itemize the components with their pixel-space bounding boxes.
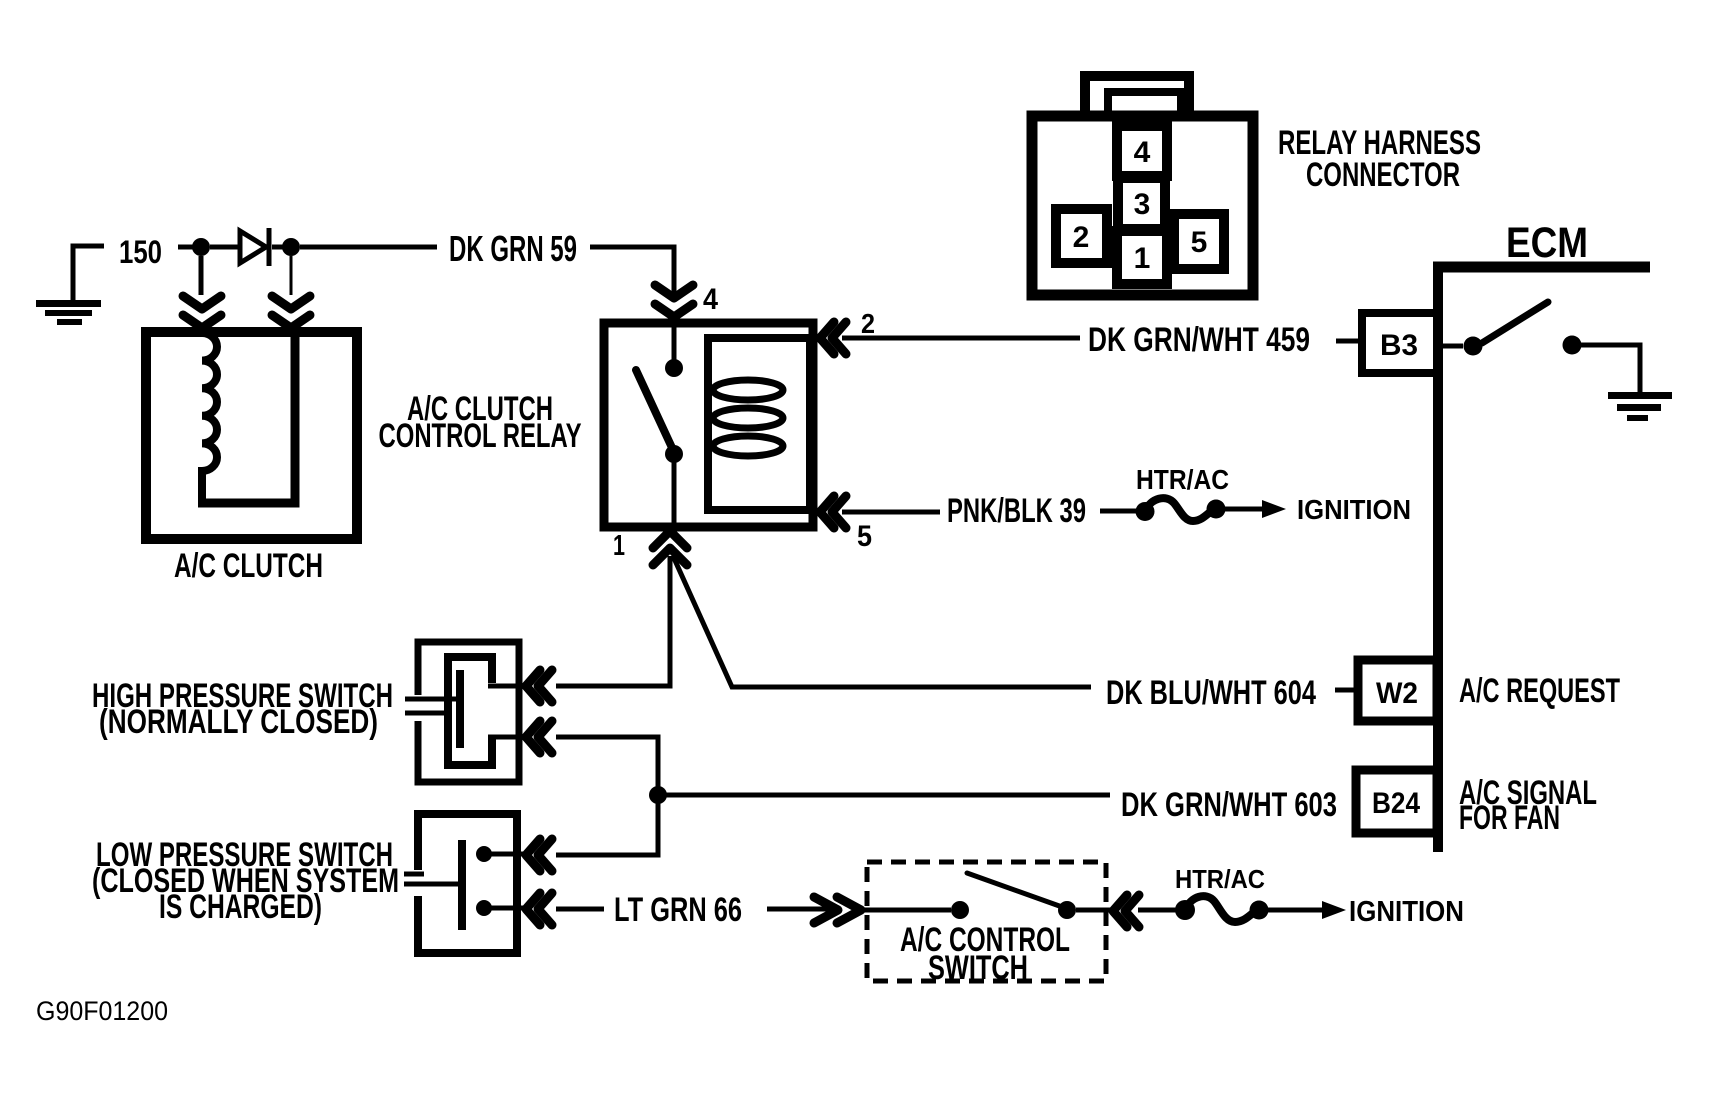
low pressure switch connector arrows (bottom) (526, 893, 552, 925)
svg-text:5: 5 (857, 520, 872, 553)
ECM boundary top line (1433, 262, 1650, 273)
wire stub to B3 (1336, 339, 1362, 344)
high pressure switch terminals (488, 686, 524, 737)
connector cavity 3 (1118, 178, 1165, 229)
low pressure switch bottom terminal (484, 906, 524, 911)
high pressure switch connector arrows (top) (526, 670, 552, 702)
high pressure switch diaphragm plates (405, 699, 458, 713)
node B (junction dot right of diode) (282, 238, 300, 256)
svg-text:DK GRN/WHT 459: DK GRN/WHT 459 (1088, 321, 1310, 359)
wire out of switch (1076, 908, 1110, 913)
ECM internal switch (1441, 302, 1640, 392)
svg-text:1: 1 (613, 530, 625, 562)
svg-text:HTR/AC: HTR/AC (1175, 864, 1265, 894)
wire node B to label DK GRN 59 (300, 245, 437, 250)
svg-text:CONNECTOR: CONNECTOR (1306, 156, 1460, 194)
wire node A to diode (210, 245, 240, 250)
svg-text:DK GRN/WHT 603: DK GRN/WHT 603 (1121, 786, 1337, 824)
relay pin 5 connector arrows (820, 496, 846, 528)
svg-text:G90F01200: G90F01200 (36, 996, 168, 1026)
wire stub to W2 (1335, 688, 1358, 693)
A/C control switch dashed box (867, 862, 1106, 981)
A/C clutch coil (inductor) (202, 333, 217, 503)
svg-text:(NORMALLY CLOSED): (NORMALLY CLOSED) (99, 703, 378, 741)
connector arrows into A/C clutch (left) (183, 296, 221, 328)
svg-text:IGNITION: IGNITION (1297, 494, 1411, 525)
A/C clutch box (146, 332, 357, 539)
ECM terminal W2 (1358, 660, 1437, 721)
svg-text:CONTROL RELAY: CONTROL RELAY (379, 417, 582, 455)
wire relay pin1 down to junction of high pressure switch (556, 556, 670, 686)
relay coil box (inner) (708, 338, 810, 510)
svg-text:DK GRN 59: DK GRN 59 (449, 228, 577, 269)
connector cavity 4 (1117, 126, 1167, 176)
svg-text:4: 4 (703, 283, 718, 316)
svg-text:FOR FAN: FOR FAN (1459, 799, 1560, 837)
svg-text:ECM: ECM (1506, 219, 1588, 267)
node A (junction dot left of diode) (192, 238, 210, 256)
connector cavity 5 (1174, 214, 1224, 269)
wire relay pin 5 to PNK/BLK 39 (842, 510, 940, 515)
svg-text:HTR/AC: HTR/AC (1136, 464, 1229, 495)
wire coil return (U inside clutch box) (198, 332, 295, 503)
node C (junction dot to B24 line) (649, 786, 667, 804)
A/C control switch left contact dot (951, 901, 969, 919)
wire to fuse (lower) (1138, 908, 1177, 913)
svg-text:W2: W2 (1376, 677, 1418, 710)
connector arrows into A/C clutch (right) (272, 296, 310, 328)
ECM terminal B24 (1356, 770, 1437, 833)
wire relay pin 2 to ECM B3 (842, 336, 1080, 341)
A/C control switch blade (967, 873, 1065, 908)
low pressure switch connector arrows (top) (526, 839, 552, 871)
high pressure switch connector arrows (bottom) (526, 721, 552, 753)
connector arrows out of A/C control switch (1113, 895, 1139, 927)
A/C control switch right contact dot (1058, 901, 1076, 919)
low pressure switch box (412, 814, 517, 953)
svg-text:150: 150 (119, 234, 162, 270)
svg-text:LT GRN 66: LT GRN 66 (614, 891, 742, 929)
relay pin 2 connector arrows (820, 322, 846, 354)
relay pin 4 connector arrows (655, 285, 693, 317)
low pressure switch top terminal (484, 852, 524, 857)
relay harness connector body (1032, 76, 1253, 295)
wire node C to label DK GRN/WHT 603 (665, 793, 1110, 798)
svg-text:2: 2 (1073, 221, 1090, 254)
svg-text:SWITCH: SWITCH (928, 949, 1028, 987)
connector cavity 1 (1117, 231, 1167, 284)
low pressure switch top contact dot (476, 846, 492, 862)
relay K1 outer box (604, 323, 813, 527)
wire node A down to A/C clutch connector (199, 256, 204, 295)
fuse HTR/AC (lower) (1175, 896, 1346, 922)
svg-text:2: 2 (861, 308, 875, 339)
relay switch bottom contact dot (665, 445, 683, 463)
connector arrows into A/C control switch (814, 897, 861, 923)
svg-text:PNK/BLK 39: PNK/BLK 39 (947, 492, 1086, 530)
diode D1 (clutch suppression diode) (240, 228, 269, 266)
svg-text:5: 5 (1191, 226, 1208, 259)
relay pin 1 connector arrows (653, 531, 687, 565)
wire relay contact to pin 1 (672, 462, 677, 527)
svg-text:IGNITION: IGNITION (1349, 896, 1464, 928)
relay coil loops (713, 380, 783, 456)
high pressure switch contact bracket (448, 657, 492, 765)
svg-text:DK BLU/WHT 604: DK BLU/WHT 604 (1106, 674, 1316, 712)
svg-text:A/C REQUEST: A/C REQUEST (1459, 672, 1620, 710)
svg-text:B3: B3 (1380, 329, 1418, 362)
svg-text:A/C CLUTCH: A/C CLUTCH (174, 547, 323, 585)
low pressure switch bottom contact dot (476, 900, 492, 916)
svg-text:1: 1 (1134, 242, 1151, 275)
wire label DK GRN 59 to relay pin 4 (590, 247, 674, 294)
high pressure switch box (412, 642, 519, 782)
wire into switch (861, 908, 951, 913)
low pressure switch blade (458, 840, 466, 930)
svg-text:IS CHARGED): IS CHARGED) (159, 888, 322, 926)
svg-text:3: 3 (1134, 188, 1151, 221)
svg-text:4: 4 (1134, 136, 1151, 169)
wire LT GRN 66 to A/C control switch (767, 907, 836, 912)
wire high pressure switch bottom to node C (556, 737, 658, 855)
wire low pressure switch bottom to LT GRN 66 (556, 907, 604, 912)
ground (ECM internal) (1608, 392, 1672, 421)
wire node B down to A/C clutch connector (290, 256, 293, 295)
ECM terminal B3 (1362, 313, 1437, 373)
ground (left, fuse 150 feed) (36, 246, 104, 325)
wire 150 to node A (178, 245, 193, 250)
wire diode to node B (272, 245, 283, 250)
relay switch common stub (672, 312, 677, 360)
svg-text:B24: B24 (1372, 787, 1420, 820)
relay switch top contact dot (665, 359, 683, 377)
fuse HTR/AC (upper) (1100, 498, 1286, 521)
high pressure switch blade (456, 670, 464, 748)
connector cavity 2 (1056, 209, 1107, 263)
relay switch blade (636, 370, 674, 452)
wire relay pin1 diagonal to A/C request line (673, 556, 1091, 687)
ECM boundary vertical line (1433, 262, 1443, 852)
low pressure switch diaphragm plates (404, 874, 460, 884)
